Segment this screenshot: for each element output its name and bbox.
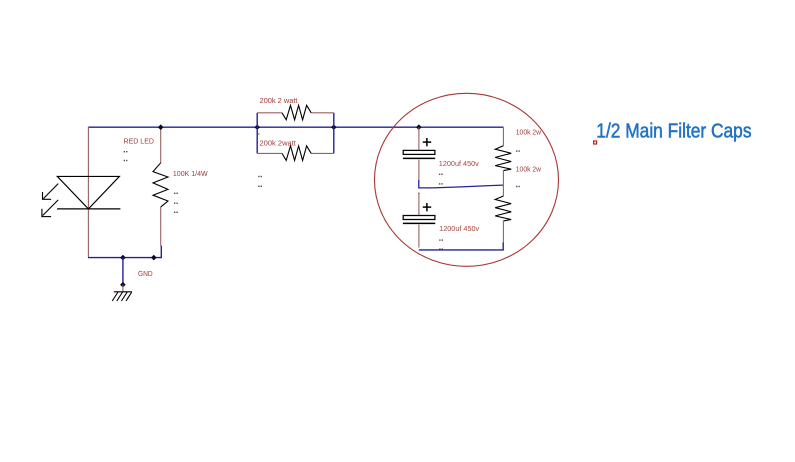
svg-text:100k 2w: 100k 2w (516, 130, 542, 137)
wire: C2 bottom lead (red) (418, 225, 420, 247)
wire: right branch top lead (red) (502, 127, 504, 146)
wire: cap branch top lead (red) (418, 127, 420, 150)
annotation marker (red square) (594, 141, 597, 144)
resistor R1 100K 1/4W zigzag (153, 163, 168, 207)
capacitor C2 plus sign (423, 203, 431, 211)
ground stub (red) (122, 285, 124, 292)
node on bottom wire (right) (151, 255, 157, 261)
tiny dots right side (516, 150, 520, 187)
capacitor C2 bottom plate (403, 222, 435, 224)
wire: parallel pair right vertical (blue) (333, 113, 335, 154)
wire: bottom return wire (blue) (88, 246, 161, 258)
highlight circle (red) (375, 93, 559, 266)
LED D1 cathode bar (57, 208, 120, 210)
resistor R3 zigzag (282, 146, 311, 161)
capacitor C1 top plate (box) (403, 150, 435, 154)
svg-text:100K 1/4W: 100K 1/4W (173, 171, 208, 178)
LED light arrow 1 (42, 184, 58, 200)
node on bottom wire (ground tap) (120, 255, 126, 261)
node: right junction of parallel pair (331, 124, 337, 130)
resistor R2 200k 2 watt (top branch) leads (257, 112, 282, 114)
resistor R1 100K 1/4W leads (red) (160, 127, 162, 163)
resistor R2 zigzag (282, 105, 311, 120)
wire: middle link (blue) (419, 180, 503, 188)
wire: parallel pair left vertical (blue) (256, 113, 258, 154)
svg-text:RED LED: RED LED (124, 138, 155, 145)
svg-text:100k 2w: 100k 2w (516, 167, 542, 174)
tiny dots under C2 label (439, 239, 443, 249)
node: junction top wire / caps branch (416, 124, 422, 130)
svg-text:200k 2 watt: 200k 2 watt (260, 98, 298, 105)
tiny dots under 100K label (174, 193, 178, 213)
wire: circle bottom (blue) (419, 242, 503, 250)
pin dot (418, 246, 420, 248)
wire: R5 bottom lead (red) (502, 221, 504, 243)
svg-text:1/2 Main Filter Caps: 1/2 Main Filter Caps (596, 120, 751, 143)
node: junction top wire / R1 (158, 124, 164, 130)
svg-text:1200uf 450v: 1200uf 450v (439, 161, 480, 168)
capacitor C1 bottom plate (403, 157, 435, 159)
wire: ground drop (blue) (122, 258, 124, 285)
resistor R5 100k 2w (lower) zigzag (495, 196, 511, 221)
resistor R4 100k 2w (upper) zigzag (495, 146, 511, 171)
LED light arrow 2 (41, 200, 58, 217)
wire: cap C2 top lead (red) (418, 193, 420, 216)
pin dot (418, 192, 420, 194)
svg-text:200k 2watt: 200k 2watt (260, 141, 296, 148)
tiny dots under C1 label (439, 174, 443, 185)
resistor R3 200k 2watt (bottom branch) leads (257, 152, 282, 154)
svg-text:GND: GND (138, 271, 153, 278)
wire: C1 bottom lead (red) (418, 160, 420, 181)
svg-text:1200uf 450v: 1200uf 450v (439, 226, 480, 233)
LED D1 triangle (57, 176, 119, 209)
wire: main top bus (blue) (88, 126, 503, 128)
wire: R4/R5 middle leads (red) (502, 170, 504, 196)
capacitor C2 top plate (box) (403, 216, 435, 220)
ground symbol (112, 292, 132, 301)
capacitor C1 plus sign (423, 138, 431, 146)
node above ground symbol (120, 282, 126, 288)
node: left junction of parallel pair (254, 124, 260, 130)
tiny dots under RED LED (124, 151, 128, 161)
wire: LED anode lead (red, vertical) (87, 127, 89, 258)
tiny dots below 200k labels (258, 133, 262, 187)
